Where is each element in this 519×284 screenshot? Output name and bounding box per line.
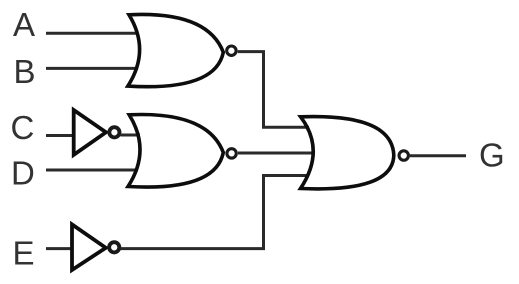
- wire NOR3 output to G: [410, 154, 466, 157]
- NOR gate G2 output bubble: [227, 149, 236, 158]
- NOR gate G1 body (inputs A,B): [128, 14, 224, 86]
- wire U2 output right then up to NOR3 bottom input: [120, 176, 309, 249]
- inverter U2 triangle (input E): [72, 224, 106, 270]
- svg-text:E: E: [13, 235, 35, 272]
- inverter U1 bubble: [109, 127, 119, 137]
- NOR gate G2 body (inputs NOT C, D): [128, 114, 223, 187]
- svg-text:A: A: [13, 6, 35, 43]
- wire U1 output to NOR2: [120, 134, 140, 137]
- svg-text:B: B: [14, 53, 36, 90]
- wire C to inverter U1: [46, 134, 74, 137]
- wire A to NOR1: [46, 32, 139, 35]
- svg-text:C: C: [11, 109, 35, 146]
- svg-text:D: D: [11, 155, 35, 192]
- inverter U1 triangle (input C): [74, 110, 106, 155]
- svg-text:G: G: [479, 137, 505, 174]
- wire E to inverter U2: [46, 247, 74, 250]
- NOR gate G3 output bubble: [399, 151, 408, 160]
- inverter U2 bubble: [109, 242, 119, 252]
- wire B to NOR1: [46, 67, 138, 70]
- NOR gate G1 output bubble: [227, 46, 236, 55]
- NOR gate G3 body (3 inputs): [301, 117, 394, 189]
- wire NOR1 output right then down to NOR3 top input: [238, 52, 309, 128]
- wire D to NOR2: [46, 169, 138, 172]
- wire NOR2 output to NOR3 middle input: [238, 152, 315, 155]
